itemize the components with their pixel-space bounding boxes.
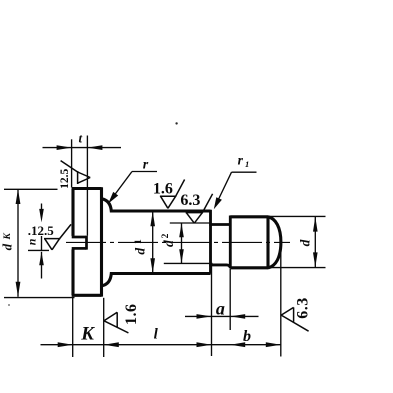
svg-text:r: r [238,152,244,167]
roughness 1.6 bottom (check mark on bearing face extension) [104,312,128,333]
dimension d1 (shoulder diameter) [152,211,154,273]
svg-text:1: 1 [134,239,144,244]
roughness 1.6 top (check mark on shoulder) [160,180,185,209]
leader r1 (undercut fillet radius) [216,172,257,204]
dimension a (groove width) [185,315,259,317]
leader r (fillet radius) [110,172,157,201]
svg-text:K: K [3,232,13,240]
shoulder (body) outline with fillets [102,199,211,286]
svg-text:t: t [78,131,82,146]
dimension d_K (head diameter) [4,189,75,298]
svg-text:r: r [143,158,149,173]
dimension line K / l / b (shared) [41,344,281,346]
stray scan dot lower left [8,304,10,306]
svg-text:d: d [0,243,15,250]
dimension t (slot depth) [43,136,122,236]
svg-text:d: d [132,248,147,255]
svg-text:1.6: 1.6 [153,180,173,197]
roughness 6.3 bottom right (check mark) [281,307,308,331]
dimension d2 (undercut diameter) [164,223,213,263]
stray scan dot [175,122,177,124]
svg-text:d: d [297,239,312,246]
roughness 12.5 top-left (check mark on slot-bottom extension) [61,161,91,184]
undercut groove [209,210,230,274]
svg-text:a: a [216,299,225,319]
svg-text:d: d [161,240,176,247]
rounded point [268,217,281,268]
head slot [72,236,87,250]
svg-text:2: 2 [161,233,171,238]
centerline (screw axis) [66,241,290,243]
dimension n (slot width) callout [28,204,49,279]
svg-text:12.5: 12.5 [59,168,71,188]
svg-text:6.3: 6.3 [180,192,200,209]
svg-text:1.6: 1.6 [123,303,140,325]
svg-text:.12.5: .12.5 [28,223,55,238]
svg-text:b: b [243,328,251,345]
dimension d (thread diameter) [270,216,326,267]
threaded end [230,216,281,270]
svg-text:1: 1 [245,159,249,169]
svg-text:n: n [24,238,38,245]
svg-text:6.3: 6.3 [295,297,312,319]
bottom extension lines [73,244,281,357]
svg-text:K: K [80,324,95,345]
roughness 6.3 top (check mark on groove extension) [186,194,213,223]
roughness 12.5 at slot (check mark) [44,224,71,249]
screw head outline [72,187,102,296]
